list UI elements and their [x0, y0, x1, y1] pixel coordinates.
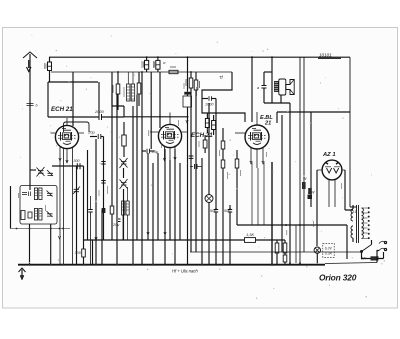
- resistor near EBL 2: [235, 150, 239, 225]
- padder row2: [21, 211, 32, 220]
- wire: [346, 225, 348, 259]
- tube ECH21 no.1: [51, 118, 85, 265]
- trimmer 1: [47, 170, 53, 176]
- wire aux y252: [190, 251, 362, 253]
- svg-text:20μ: 20μ: [112, 223, 120, 227]
- tube AZ1: [317, 160, 345, 207]
- wire: [136, 94, 138, 240]
- ground symbol: [19, 268, 26, 280]
- wire: [174, 149, 176, 265]
- svg-text:ECH 21: ECH 21: [51, 106, 73, 113]
- svg-text:10101: 10101: [319, 53, 332, 58]
- transformer secondary bumps: [362, 208, 364, 238]
- junction dots on output wire: [285, 224, 287, 226]
- wire: [147, 153, 149, 240]
- transformer core: [357, 205, 359, 243]
- wire: [190, 166, 202, 168]
- antenna coupling mark b: [27, 104, 34, 106]
- resistor pair near EBL grid (1): [205, 113, 209, 133]
- resistor on B+ line: [302, 182, 306, 189]
- wire: [95, 139, 97, 265]
- wire: [150, 72, 152, 149]
- wire B+ vertical 2: [303, 57, 305, 252]
- wire AVC rail y72: [51, 71, 232, 73]
- arrow junction marks: [58, 120, 188, 240]
- label box 6.3V 0.3A: [323, 243, 334, 257]
- wire AVC column: [103, 137, 105, 241]
- resistor 1.5K: [245, 232, 256, 242]
- left vertical drops to bus: [10, 186, 12, 229]
- staircase wire AVC to EBL grid: [202, 72, 245, 122]
- tube ECH21 no.2: [150, 113, 188, 163]
- capacitor 50n (2): [224, 205, 232, 265]
- mains plug prong 1: [379, 241, 387, 243]
- wire HT to primary top: [350, 57, 357, 207]
- junction dots on bus: [29, 262, 302, 266]
- wire: [101, 210, 103, 265]
- padder row1 labels: [22, 192, 31, 197]
- wire: [164, 149, 166, 265]
- wire plug drop: [377, 251, 384, 263]
- electrolytic black: [308, 195, 313, 200]
- IF transformer 1 coil: [127, 72, 135, 101]
- transformer taps: [362, 207, 370, 239]
- wire: [132, 106, 134, 265]
- trimmer row2: [47, 211, 53, 217]
- wire: [201, 158, 203, 265]
- IF transformer 2 coil: [122, 187, 130, 240]
- variable capacitor 2: [120, 179, 128, 240]
- capacitor 1000 mid: [202, 96, 216, 106]
- trimmer row1: [47, 191, 53, 197]
- wire: [116, 94, 118, 265]
- capacitor 300 inline: [77, 163, 80, 169]
- wire B+ vertical 1: [299, 57, 301, 265]
- svg-text:21: 21: [264, 120, 271, 126]
- tube 1 shield bracket: [64, 122, 90, 132]
- wire grid return y240: [84, 239, 286, 241]
- wire EBL pins: [252, 162, 264, 225]
- IF transformer 1 primary resistor 50K: [113, 72, 120, 110]
- chassis bus: [18, 264, 325, 266]
- wire output thick y225: [237, 224, 347, 226]
- speaker output transformer: [257, 57, 286, 103]
- IF can box: [183, 96, 192, 107]
- wire: [157, 153, 159, 240]
- speaker cone: [286, 80, 294, 95]
- wire: [29, 224, 31, 265]
- tiny value-label marks (illegible at scale): [19, 87, 342, 235]
- junction dots row y228: [16, 228, 64, 230]
- svg-text:W: W: [303, 177, 307, 181]
- mains plug prong 2: [379, 248, 387, 250]
- wire: [90, 196, 92, 265]
- label 10101: [318, 53, 341, 59]
- mains switch: [361, 240, 372, 259]
- wire: [280, 95, 282, 103]
- svg-text:Orion 320: Orion 320: [319, 273, 357, 283]
- svg-text:ECH 21: ECH 21: [191, 132, 213, 139]
- svg-text:a: a: [257, 86, 259, 90]
- tuning gang section 1: [30, 167, 45, 177]
- wire cathode y166: [52, 165, 84, 167]
- wire bus thin extension: [325, 263, 377, 264]
- resistor mid: [110, 72, 114, 240]
- fuse 2A: [360, 256, 379, 261]
- wire: [345, 170, 353, 210]
- wire thick chassis drop: [271, 162, 273, 265]
- wire: [276, 112, 278, 123]
- wire: [11, 228, 71, 230]
- svg-text:2000: 2000: [94, 109, 105, 114]
- wire: [310, 112, 312, 207]
- wire: [76, 166, 78, 265]
- resistor pair near EBL grid (2): [212, 115, 216, 135]
- resistor 45K output divider: [272, 240, 279, 265]
- coil row 1 (band coil): [34, 188, 42, 200]
- wire: [87, 150, 89, 240]
- resistor stack left of EBL (1): [186, 72, 193, 252]
- wire: [141, 72, 143, 265]
- wire: [152, 163, 154, 265]
- resistor R osc (top middle 1): [142, 57, 149, 72]
- wire: [295, 225, 297, 263]
- wire: [179, 163, 181, 240]
- wire right long: [281, 115, 283, 252]
- capacitor marks on AVC column: [101, 162, 105, 184]
- wire: [169, 160, 171, 240]
- power transformer primary bumps: [351, 205, 353, 242]
- svg-text:mW: mW: [308, 191, 315, 195]
- resistor R osc (top middle 2): [153, 57, 160, 72]
- resistor divider 2: [283, 240, 287, 265]
- capacitor on column: [88, 210, 92, 213]
- capacitor small mid: [195, 164, 198, 169]
- wire: [251, 57, 253, 122]
- svg-text:1,5K: 1,5K: [246, 232, 255, 237]
- svg-text:31: 31: [352, 210, 356, 214]
- oscillator coil box: [20, 186, 57, 225]
- svg-text:Hf + Ufa nach: Hf + Ufa nach: [172, 269, 198, 274]
- svg-text:20μ: 20μ: [87, 130, 95, 135]
- resistor antenna series: [45, 57, 52, 82]
- wire speaker return y103: [264, 102, 290, 104]
- electrolytic vertical: [122, 122, 126, 157]
- wire: [92, 240, 94, 265]
- svg-text:b: b: [36, 104, 38, 108]
- resistor on line 2: [308, 188, 312, 194]
- capacitor 20u left: [87, 130, 104, 140]
- wire: [187, 107, 189, 265]
- svg-text:300: 300: [74, 159, 80, 163]
- tube EBL21: [235, 112, 269, 168]
- wire: [47, 82, 49, 117]
- svg-text:AZ 1: AZ 1: [322, 152, 336, 158]
- resistor IF1 secondary: [137, 72, 141, 106]
- coil row 2: [34, 209, 42, 221]
- capacitor 2000 coupling: [48, 82, 124, 120]
- resistor 0M horizontal on AVC rail: [169, 67, 178, 74]
- trimmer arrow osc: [73, 187, 80, 195]
- junction dots on rails: [117, 56, 273, 210]
- pilot lamp: [314, 247, 320, 263]
- variable capacitor (osc padder): [120, 158, 128, 178]
- wire: [289, 103, 291, 263]
- wire: [159, 72, 161, 128]
- resistor 300 cathode: [75, 166, 86, 265]
- capacitor 1000 top (black block): [184, 57, 197, 96]
- wire grid feed y82: [48, 81, 98, 83]
- wire: [72, 72, 74, 126]
- wire: [112, 94, 124, 117]
- resistor near EBL: [221, 128, 225, 265]
- svg-text:1000: 1000: [205, 103, 214, 107]
- antenna: [23, 52, 37, 190]
- capacitor 45u: [142, 149, 159, 154]
- capacitor 20u2: [112, 219, 121, 227]
- wire screen rail y112: [277, 111, 350, 113]
- wire: [316, 170, 318, 246]
- wire grid line y117 right part: [124, 116, 188, 118]
- resistor small lower: [203, 135, 207, 153]
- wire: [50, 224, 52, 265]
- dial lamp: [205, 103, 213, 265]
- resistor stack left of EBL (2): [194, 72, 199, 252]
- capacitor 50n (1): [210, 99, 218, 266]
- svg-text:0,3A: 0,3A: [325, 252, 333, 256]
- wire top HT rail: [49, 56, 350, 58]
- capacitor coupling to output grid: [189, 156, 194, 158]
- svg-text:6,3V: 6,3V: [325, 247, 333, 251]
- svg-text:2A: 2A: [360, 256, 366, 261]
- svg-text:300: 300: [75, 251, 82, 255]
